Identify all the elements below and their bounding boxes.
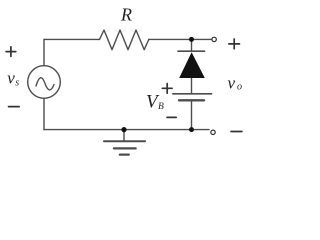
battery VB short plate — [179, 99, 204, 101]
wire left vertical lower — [43, 98, 45, 129]
label plus output — [229, 39, 240, 49]
terminal bottom open circle — [211, 130, 215, 134]
svg-text:s: s — [15, 78, 19, 89]
svg-text:B: B — [158, 102, 164, 112]
wire left vertical upper — [43, 39, 45, 65]
terminal top open circle — [212, 37, 216, 41]
resistor R — [100, 30, 149, 50]
svg-text:v: v — [228, 74, 236, 93]
wire bottom — [44, 129, 209, 131]
wire top-left lead — [44, 38, 100, 40]
label minus output — [231, 131, 242, 133]
battery VB long plate — [173, 93, 212, 95]
label minus battery — [167, 116, 176, 118]
node junction ground — [121, 127, 126, 132]
diode D triangle — [179, 52, 205, 78]
svg-text:v: v — [7, 69, 15, 88]
sine wave — [36, 78, 54, 90]
label minus left — [9, 106, 20, 108]
wire battery to bottom — [191, 100, 193, 129]
node junction bottom — [189, 127, 194, 132]
svg-text:R: R — [120, 5, 132, 25]
wire diode to battery — [191, 78, 193, 94]
label plus battery — [162, 84, 172, 94]
wire diode branch top — [191, 39, 193, 51]
wire top-right lead — [149, 38, 211, 40]
ground stub — [123, 130, 125, 142]
node junction top — [189, 37, 194, 42]
ground bar 3 — [120, 154, 129, 156]
diode cathode bar — [178, 50, 205, 52]
ground bar 1 — [104, 140, 145, 142]
ground bar 2 — [114, 147, 136, 149]
source vs circle — [28, 66, 61, 99]
label plus left — [6, 47, 16, 57]
svg-text:o: o — [237, 82, 242, 93]
